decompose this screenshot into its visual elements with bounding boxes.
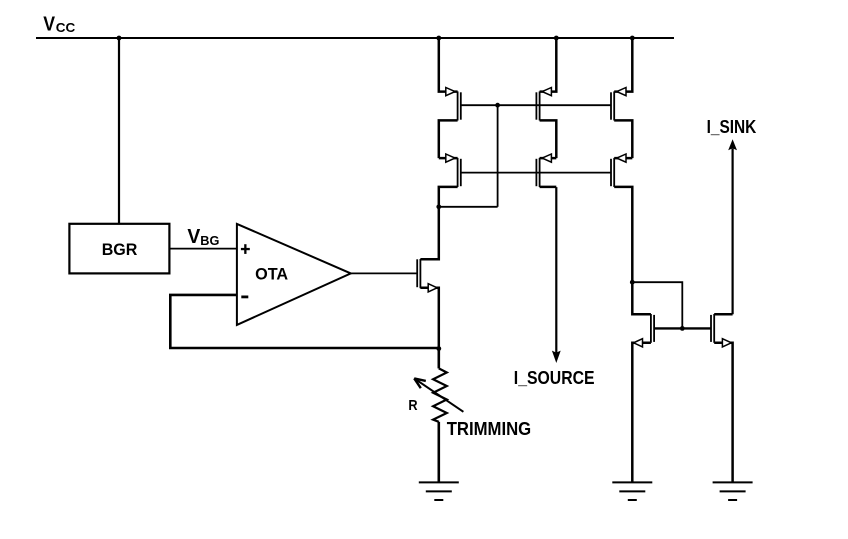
wire top PMOS gate bus bbox=[461, 104, 611, 106]
wire I_SOURCE output bbox=[555, 187, 557, 354]
op-amp OTA bbox=[237, 224, 351, 325]
wire VCC to BGR bbox=[118, 38, 120, 224]
junction dot sink mirror input bbox=[630, 280, 635, 285]
arrowhead I_SOURCE bbox=[552, 351, 561, 363]
wire N2 diode connection bbox=[632, 282, 682, 328]
junction dot top gate bus bbox=[495, 103, 500, 108]
transistor P4 PMOS cascode col2 bbox=[536, 154, 556, 187]
wire diode node vertical bbox=[497, 105, 499, 207]
svg-text:BGR: BGR bbox=[102, 240, 138, 259]
wire OTA output to M1 gate bbox=[351, 272, 418, 274]
wire I_SINK output bbox=[731, 149, 733, 315]
svg-text:I_SOURCE: I_SOURCE bbox=[514, 368, 595, 388]
svg-text:V: V bbox=[187, 226, 201, 248]
trimmer arrow bbox=[414, 378, 463, 411]
svg-text:TRIMMING: TRIMMING bbox=[447, 418, 532, 439]
BGR block bbox=[69, 224, 169, 274]
transistor P3 PMOS mirror col2 top bbox=[536, 38, 556, 158]
junction dot rail col2 bbox=[554, 36, 559, 41]
net label V_CC bbox=[43, 14, 76, 36]
op-amp + input sign bbox=[241, 244, 250, 254]
transistor N2 NMOS mirror diode bbox=[632, 282, 682, 482]
svg-text:BG: BG bbox=[200, 233, 219, 248]
ground symbol G3 N3 source bbox=[713, 482, 753, 500]
junction dot diode node bbox=[436, 204, 441, 209]
transistor P6 PMOS cascode col3 bbox=[611, 154, 632, 282]
arrowhead I_SINK bbox=[728, 139, 737, 150]
transistor P5 PMOS mirror col3 top bbox=[611, 38, 632, 158]
svg-text:V: V bbox=[43, 14, 55, 36]
op-amp - input sign bbox=[241, 295, 248, 298]
transistor M1 NMOS follower bbox=[417, 207, 439, 349]
net label V_BG bbox=[187, 226, 219, 248]
ground symbol G2 N2 source bbox=[612, 482, 652, 500]
junction dot feedback node bbox=[436, 346, 441, 351]
wire resistor to ground bbox=[437, 422, 440, 483]
wire VCC rail bbox=[36, 37, 674, 39]
wire cascode PMOS gate bus bbox=[461, 172, 611, 174]
transistor P2 PMOS cascode col1 bbox=[439, 154, 461, 207]
svg-text:I_SINK: I_SINK bbox=[707, 116, 757, 137]
wire diode node horizontal bbox=[439, 206, 498, 208]
wire feedback node to resistor bbox=[437, 349, 440, 369]
wire V_BG BGR to OTA + input bbox=[169, 248, 237, 250]
transistor N3 NMOS mirror output bbox=[682, 314, 732, 482]
junction dot rail col1 bbox=[436, 36, 441, 41]
svg-text:CC: CC bbox=[56, 20, 76, 35]
feedback wire to OTA - input bbox=[170, 295, 439, 348]
junction dot VCC-BGR tap bbox=[117, 36, 122, 41]
transistor P1 PMOS mirror col1 top bbox=[439, 38, 461, 158]
resistor R trimming zigzag bbox=[433, 368, 447, 421]
junction dot NMOS gate bus bbox=[680, 326, 685, 331]
ground symbol G1 trimming bbox=[419, 482, 459, 500]
svg-text:OTA: OTA bbox=[255, 265, 288, 284]
junction dot rail col3 bbox=[630, 36, 635, 41]
svg-text:R: R bbox=[408, 398, 418, 414]
